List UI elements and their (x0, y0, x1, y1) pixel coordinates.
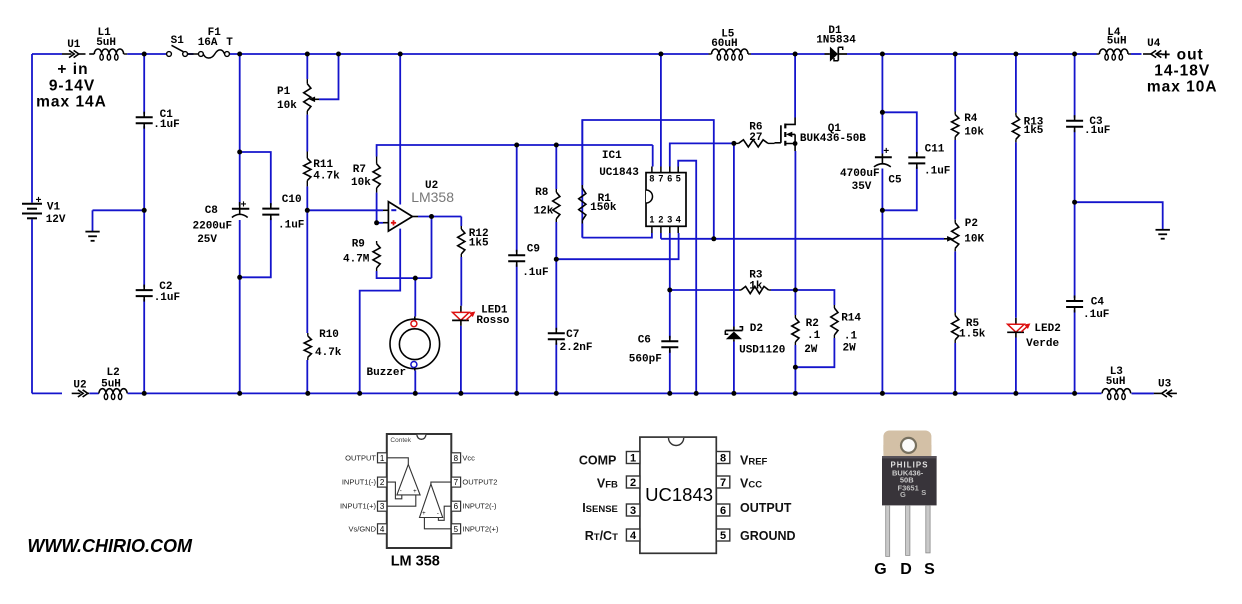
wire C5 to C11 top (882, 112, 916, 154)
svg-text:2: 2 (380, 478, 385, 487)
label C11 value (924, 143, 950, 177)
svg-text:3: 3 (630, 505, 636, 517)
label P2 10K (964, 218, 984, 246)
LM358 op-amp B triangle (420, 482, 452, 529)
label R11 4.7k (313, 159, 340, 183)
svg-text:T: T (226, 37, 233, 49)
svg-text:12k: 12k (534, 205, 554, 217)
svg-text:C2: C2 (159, 281, 172, 293)
label Q1 BUK436-50B (800, 123, 866, 145)
resistor R9 (373, 241, 380, 271)
svg-text:10k: 10k (351, 177, 371, 189)
fuse F1 (188, 50, 230, 58)
inductor L3 (1102, 389, 1131, 400)
resistor R5 (952, 313, 959, 344)
svg-text:5: 5 (676, 174, 681, 184)
wire C3 C4 vertical (1074, 54, 1076, 393)
wire pin7 riser (660, 54, 662, 167)
wire R7 lead to non-inverting node (376, 193, 378, 223)
svg-text:OUTPUT: OUTPUT (345, 453, 376, 462)
label R4 10k (964, 113, 984, 138)
label U2 LM358 (411, 180, 454, 205)
svg-text:C5: C5 (888, 175, 902, 187)
wire output ground branch (1075, 202, 1163, 229)
svg-text:COMP: COMP (579, 453, 617, 467)
svg-text:8: 8 (454, 454, 459, 463)
svg-text:27: 27 (749, 132, 762, 144)
transistor Q1 MOSFET symbol (775, 118, 798, 152)
label LM 358 title (391, 554, 440, 570)
potentiometer P2 (944, 220, 959, 252)
capacitor C7 (548, 328, 565, 345)
svg-text:C11: C11 (925, 143, 945, 155)
svg-text:C9: C9 (527, 243, 540, 255)
wire R1 vertical (581, 120, 583, 238)
svg-text:2: 2 (658, 215, 663, 225)
wire non-inverting input stub (377, 222, 383, 224)
svg-text:R2: R2 (806, 318, 819, 330)
wire C1 C2 vertical at x=144 (143, 54, 145, 393)
label L4 5uH (1107, 27, 1127, 48)
label R3 1k (749, 270, 763, 293)
wire VFB rail to P2 wiper (661, 233, 944, 239)
wire op-amp output node (418, 217, 461, 279)
junction dots top rail (142, 52, 1077, 57)
svg-text:.1uF: .1uF (154, 292, 180, 304)
label R6 27 (749, 122, 762, 145)
svg-text:UC1843: UC1843 (599, 167, 639, 179)
label LED1 Rosso (476, 305, 509, 327)
IC1 pin numbers (649, 174, 680, 225)
svg-text:C7: C7 (566, 329, 579, 341)
svg-text:1k5: 1k5 (469, 238, 489, 250)
svg-text:5uH: 5uH (101, 379, 121, 391)
svg-text:6: 6 (454, 502, 459, 511)
label C9 value (522, 243, 548, 279)
svg-text:VREF: VREF (740, 453, 768, 467)
svg-text:8: 8 (649, 174, 654, 184)
wire C10 bottom link (240, 218, 271, 277)
LED LED1 red (452, 306, 475, 326)
connector U3 bottom arrow (1154, 390, 1177, 397)
label R8 12k (534, 187, 554, 217)
svg-text:4.7k: 4.7k (313, 171, 340, 183)
label R5 1.5k (959, 318, 986, 341)
label R7 10k (351, 164, 371, 189)
svg-text:R10: R10 (319, 329, 339, 341)
svg-text:RT/CT: RT/CT (585, 529, 618, 543)
svg-text:60uH: 60uH (711, 38, 737, 50)
svg-text:LED2: LED2 (1034, 323, 1060, 335)
inductor L2 (99, 389, 128, 400)
svg-text:10K: 10K (964, 233, 984, 245)
label L3 5uH U3 bottom (1106, 366, 1172, 391)
svg-text:R9: R9 (352, 239, 365, 251)
UC1843 left pin boxes (626, 452, 640, 543)
svg-text:4.7k: 4.7k (315, 347, 342, 359)
svg-text:Vcc: Vcc (462, 453, 475, 462)
resistor R14 (831, 305, 838, 338)
svg-text:C10: C10 (282, 194, 302, 206)
diode D2 USD1120 schottky (725, 327, 742, 342)
wire op-amp supply vertical x=400 (360, 54, 401, 393)
svg-text:16A: 16A (198, 37, 218, 49)
svg-text:BUK436-50B: BUK436-50B (800, 133, 866, 145)
wire R3 to source node (771, 289, 795, 291)
resistor R1 (579, 185, 586, 224)
wire R13 LED2 vertical (1015, 54, 1017, 393)
svg-text:+: + (883, 147, 889, 158)
wire left input vertical to V1 (31, 54, 33, 393)
svg-text:5: 5 (454, 525, 459, 534)
svg-text:2.2nF: 2.2nF (560, 342, 593, 354)
svg-text:OUTPUT: OUTPUT (740, 501, 792, 515)
wire bottom-right to L3 (1132, 392, 1154, 394)
label D2 USD1120 (739, 323, 785, 357)
capacitor C4 (1066, 296, 1083, 313)
wire C11 bottom to C5 (882, 167, 916, 211)
UC1843 pinout box (640, 437, 716, 553)
svg-text:Contek: Contek (390, 437, 411, 444)
label R12 1k5 (469, 228, 489, 250)
svg-text:C8: C8 (205, 205, 219, 217)
capacitor C6 (661, 336, 678, 353)
wire +12V top rail and left input branch (32, 53, 1142, 55)
wire R14 parallel loop (795, 290, 834, 367)
svg-text:U3: U3 (1158, 378, 1172, 390)
svg-text:5uH: 5uH (1106, 376, 1126, 388)
resistor R12 (458, 226, 465, 257)
label L1 5uH (96, 27, 116, 49)
UC1843 right pin boxes (716, 452, 730, 543)
svg-text:+: + (413, 489, 417, 495)
svg-text:1N5834: 1N5834 (816, 34, 856, 46)
wire pin3 Isense vertical to C6 (669, 233, 671, 393)
svg-text:INPUT1(+): INPUT1(+) (340, 502, 377, 511)
svg-text:+: + (36, 196, 42, 207)
switch S1 (167, 45, 188, 56)
capacitor C9 (508, 250, 525, 267)
resistor R7 (373, 157, 380, 193)
svg-text:VFB: VFB (597, 477, 618, 491)
svg-text:U1: U1 (67, 39, 81, 51)
svg-text:LM 358: LM 358 (391, 554, 440, 570)
svg-text:INPUT1(-): INPUT1(-) (342, 478, 377, 487)
resistor R2 (792, 315, 799, 345)
svg-text:P2: P2 (965, 218, 978, 230)
label U4 (1147, 38, 1161, 50)
svg-text:D: D (900, 561, 912, 578)
svg-text:Verde: Verde (1026, 338, 1059, 350)
wire C8 to C10 top link (240, 152, 271, 205)
resistor R8 (553, 189, 560, 222)
svg-text:4700uF: 4700uF (840, 168, 880, 180)
label WWW.CHIRIO.COM (27, 536, 193, 556)
svg-text:max 14A: max 14A (36, 93, 107, 110)
svg-text:U2: U2 (73, 380, 86, 392)
LM358 right pin boxes (451, 453, 499, 534)
wire C5 vertical (881, 54, 883, 393)
svg-text:-: - (400, 489, 402, 495)
inductor L1 (94, 49, 127, 60)
label G D S (874, 561, 935, 578)
label input bold text (36, 61, 107, 110)
label Buzzer (367, 367, 407, 379)
wire bottom ground rail (32, 392, 1154, 394)
label S1 (171, 35, 185, 47)
wire inverting input from divider node (307, 209, 383, 211)
wire R8 C7 vertical (555, 145, 557, 393)
label C7 2.2nF (560, 329, 593, 354)
junction dots middle nets (142, 110, 1077, 370)
wire Q1 source vertical (794, 151, 796, 393)
svg-text:U4: U4 (1147, 38, 1161, 50)
svg-text:1.5k: 1.5k (959, 328, 986, 340)
svg-text:5: 5 (720, 530, 726, 542)
capacitor C1 (136, 112, 153, 129)
diode D1 1N5834 schottky (825, 47, 848, 62)
svg-text:+ in: + in (57, 61, 88, 78)
svg-text:ISENSE: ISENSE (582, 501, 618, 515)
wire COMP bridge rail over IC (582, 120, 714, 239)
wire VREF rail y=145 (377, 145, 653, 157)
wire pin5 ground riser (678, 161, 696, 394)
svg-text:Vs/GND: Vs/GND (348, 524, 376, 533)
IC1 UC1843 chip body (646, 167, 686, 234)
svg-text:VCC: VCC (740, 477, 762, 491)
svg-text:+ out: + out (1161, 47, 1203, 64)
svg-text:5uH: 5uH (96, 37, 116, 49)
svg-text:6: 6 (667, 174, 672, 184)
svg-text:S: S (924, 561, 935, 578)
wire R12 to LED1 (460, 257, 462, 393)
label R14 values (841, 313, 861, 355)
svg-text:C6: C6 (638, 334, 651, 346)
svg-text:G: G (900, 490, 906, 499)
capacitor C8 electrolytic (232, 201, 249, 218)
label D1 1N5834 (816, 25, 856, 47)
svg-text:G: G (874, 561, 886, 578)
svg-text:D2: D2 (750, 323, 763, 335)
svg-text:R11: R11 (313, 159, 333, 171)
svg-text:7: 7 (658, 174, 663, 184)
svg-text:4.7M: 4.7M (343, 254, 370, 266)
svg-text:-: - (437, 511, 439, 517)
svg-text:.1uF: .1uF (153, 119, 179, 131)
inductor L4 (1097, 49, 1132, 60)
svg-text:Buzzer: Buzzer (367, 367, 407, 379)
junction dots bottom rail (142, 391, 1077, 396)
battery V1 (22, 204, 42, 219)
label V1 12V (36, 196, 66, 226)
LED LED2 green indicator (1007, 318, 1030, 338)
wire Q1 drain riser (794, 54, 796, 118)
LM358 pinout box (387, 434, 452, 548)
svg-text:WWW.CHIRIO.COM: WWW.CHIRIO.COM (27, 536, 193, 556)
svg-text:.1: .1 (844, 330, 858, 342)
wire pin8 riser (652, 145, 654, 167)
wire RT/CT row to pin 4 (556, 233, 678, 259)
svg-text:.1uF: .1uF (1083, 309, 1109, 321)
label output bold text (1147, 47, 1218, 96)
wire Isense row to R3 (670, 289, 739, 291)
svg-text:3: 3 (667, 215, 672, 225)
svg-text:INPUT2(+): INPUT2(+) (462, 524, 499, 533)
LM358 op-amp A triangle (387, 458, 420, 506)
svg-text:+: + (241, 201, 247, 212)
svg-text:35V: 35V (852, 181, 872, 193)
wire D2 clamp vertical (733, 143, 735, 393)
svg-text:L2: L2 (107, 367, 120, 379)
op-amp U2 (383, 202, 418, 232)
capacitor C3 (1066, 115, 1083, 132)
label R2 values (804, 318, 820, 356)
label R13 1k5 (1024, 116, 1044, 137)
ground symbol left (85, 232, 99, 241)
UC1843 right labels (740, 453, 796, 543)
wire C8 vertical at x=240 (239, 54, 241, 393)
svg-text:+: + (422, 511, 426, 517)
resistor R11 (304, 152, 311, 187)
svg-text:3: 3 (380, 502, 385, 511)
svg-text:.1uF: .1uF (924, 166, 950, 178)
svg-text:25V: 25V (197, 234, 217, 246)
resistor R10 (304, 333, 311, 360)
label C2 value (154, 281, 180, 304)
label F1 16A T (198, 27, 234, 49)
svg-text:2: 2 (630, 477, 636, 489)
svg-text:10k: 10k (964, 126, 984, 138)
capacitor C5 electrolytic (874, 147, 892, 167)
svg-text:4: 4 (676, 215, 681, 225)
svg-text:1: 1 (380, 454, 385, 463)
connector U4 output arrow (1143, 50, 1162, 57)
capacitor C2 (136, 285, 153, 302)
label L5 60uH (711, 28, 737, 50)
label LED2 Verde (1026, 323, 1061, 350)
resistor R6 (736, 140, 775, 147)
UC1843 left labels (579, 453, 618, 543)
ground symbol right (1156, 230, 1170, 239)
label C6 560pF (629, 334, 662, 365)
svg-text:1k: 1k (749, 281, 763, 293)
svg-text:Rosso: Rosso (476, 315, 509, 327)
svg-text:S1: S1 (171, 35, 185, 47)
label C3 value (1084, 116, 1110, 137)
svg-text:1: 1 (630, 453, 636, 465)
svg-text:V1: V1 (47, 202, 61, 214)
svg-text:R14: R14 (841, 313, 861, 325)
label C8 2200uF 25V (193, 205, 233, 246)
svg-text:.1uF: .1uF (1084, 125, 1110, 137)
resistor R3 (739, 286, 771, 293)
wire pin1 to R1 (582, 233, 652, 238)
label U2 L2 5uH bottom (73, 367, 121, 392)
resistor R13 (1012, 113, 1019, 143)
resistor R4 (952, 112, 959, 141)
svg-text:C4: C4 (1091, 296, 1105, 308)
svg-text:S: S (921, 488, 926, 497)
svg-text:IC1: IC1 (602, 150, 622, 162)
svg-text:10k: 10k (277, 100, 297, 112)
svg-text:12V: 12V (46, 214, 66, 226)
svg-text:560pF: 560pF (629, 354, 662, 366)
svg-text:6: 6 (720, 505, 726, 517)
LM358 left pin boxes (340, 453, 387, 534)
svg-text:GROUND: GROUND (740, 529, 796, 543)
svg-text:7: 7 (720, 477, 726, 489)
svg-text:150k: 150k (590, 202, 617, 214)
connector U1 input arrow (62, 50, 94, 57)
label U1 (67, 39, 81, 51)
label C10 value (278, 194, 304, 232)
inductor L5 (709, 49, 752, 60)
svg-text:UC1843: UC1843 (645, 484, 713, 505)
label R10 4.7k (315, 329, 342, 359)
svg-text:USD1120: USD1120 (739, 345, 785, 357)
wire buzzer branch (414, 278, 416, 393)
svg-text:R4: R4 (964, 113, 978, 125)
svg-text:.1: .1 (807, 330, 821, 342)
svg-text:P1: P1 (277, 86, 291, 98)
wire P1 R11 R10 vertical at x=307 (306, 54, 308, 393)
svg-text:R7: R7 (353, 164, 366, 176)
svg-text:INPUT2(-): INPUT2(-) (462, 502, 497, 511)
wire R4 P2 R5 vertical (954, 54, 956, 393)
svg-text:max 10A: max 10A (1147, 79, 1218, 96)
transistor photo BUK436 package (882, 431, 937, 557)
svg-text:LM358: LM358 (411, 189, 454, 205)
label C4 value (1083, 296, 1109, 321)
connector U2 bottom arrow (72, 390, 90, 397)
label P1 10k (277, 86, 297, 112)
buzzer (390, 317, 440, 371)
label IC1 UC1843 (599, 150, 639, 179)
svg-text:2200uF: 2200uF (193, 221, 233, 233)
capacitor C11 (908, 152, 925, 169)
svg-text:2W: 2W (804, 344, 818, 356)
svg-text:2W: 2W (843, 343, 857, 355)
svg-text:R8: R8 (535, 187, 549, 199)
wire C9 vertical (516, 145, 518, 393)
label R1 150k (590, 193, 617, 214)
svg-text:.1uF: .1uF (278, 220, 304, 232)
svg-text:7: 7 (454, 478, 459, 487)
capacitor C10 (262, 203, 279, 220)
svg-text:8: 8 (720, 453, 726, 465)
label R9 4.7M (343, 239, 370, 266)
label C5 4700uF 35V (840, 168, 902, 193)
svg-text:1k5: 1k5 (1024, 125, 1044, 137)
wire ground stub to C1/C2 midpoint (93, 210, 145, 231)
potentiometer P1 (304, 79, 319, 115)
wire pin6 to R6 (670, 143, 736, 166)
wire R9 to feedback row (377, 271, 432, 278)
svg-text:4: 4 (380, 525, 385, 534)
svg-text:4: 4 (630, 530, 637, 542)
svg-text:1: 1 (649, 215, 654, 225)
svg-text:9-14V: 9-14V (49, 77, 95, 94)
wire P1 wiper from top rail (319, 54, 339, 99)
svg-text:OUTPUT2: OUTPUT2 (462, 478, 497, 487)
svg-text:.1uF: .1uF (522, 267, 548, 279)
svg-text:5uH: 5uH (1107, 36, 1127, 48)
label C1 value (153, 109, 179, 131)
svg-text:14-18V: 14-18V (1154, 62, 1210, 79)
